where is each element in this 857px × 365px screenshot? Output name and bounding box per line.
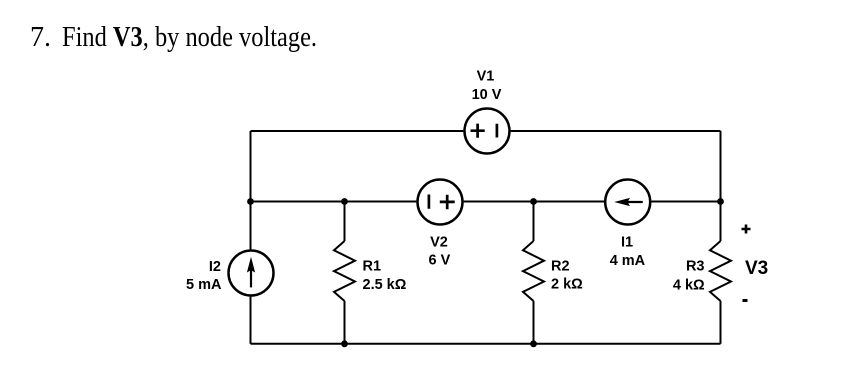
- wire R3 top lead: [720, 202, 722, 242]
- svg-text:2.5 kΩ: 2.5 kΩ: [363, 277, 407, 293]
- wire left rail lower (I2 to bottom rail): [250, 297, 252, 344]
- svg-text:R3: R3: [686, 258, 705, 274]
- wire top-right horizontal (V1 to right rail): [511, 130, 721, 132]
- wire R3 bottom lead: [720, 301, 722, 344]
- svg-text:R1: R1: [363, 259, 382, 275]
- svg-text:10 V: 10 V: [472, 87, 502, 103]
- node dot C (R2 / middle wire): [530, 198, 537, 205]
- wire top-left horizontal (node top to V1): [251, 130, 464, 132]
- svg-text:6 V: 6 V: [429, 253, 451, 269]
- wire bottom rail: [251, 343, 721, 345]
- wire R2 bottom lead: [533, 301, 535, 344]
- voltage source V1: [465, 109, 510, 154]
- wire R1 bottom lead: [344, 301, 346, 344]
- svg-text:4 kΩ: 4 kΩ: [673, 278, 705, 294]
- svg-text:I2: I2: [209, 259, 221, 275]
- wire left rail upper (top corner down to I2): [250, 131, 252, 249]
- wire middle left (node A to V2): [251, 201, 417, 203]
- wire middle center (V2 to I1): [464, 201, 604, 203]
- wire middle right (I1 to node C): [651, 201, 720, 203]
- svg-text:V1: V1: [477, 69, 495, 85]
- svg-text:4 mA: 4 mA: [610, 253, 646, 269]
- svg-text:V3: V3: [745, 258, 768, 279]
- node dot D (right rail / middle wire): [717, 198, 724, 205]
- svg-text:R2: R2: [551, 259, 570, 275]
- resistor R2 zigzag: [523, 241, 544, 301]
- svg-text:2 kΩ: 2 kΩ: [551, 277, 583, 293]
- wire right rail upper (top corner to node C): [720, 131, 722, 202]
- node dot E (R1 / bottom rail): [341, 340, 348, 347]
- current source I1: [605, 180, 650, 225]
- wire R1 top lead: [344, 202, 346, 242]
- wire R2 top lead: [533, 202, 535, 242]
- svg-text:I1: I1: [621, 235, 633, 251]
- current source I2: [229, 251, 274, 296]
- node dot F (R2 / bottom rail): [530, 340, 537, 347]
- svg-text:5 mA: 5 mA: [186, 277, 222, 293]
- node dot A (left rail / middle wire): [247, 198, 254, 205]
- svg-text:V2: V2: [430, 235, 448, 251]
- label V3 minus sign: [743, 299, 748, 302]
- resistor R3 zigzag: [710, 241, 731, 301]
- node dot B (R1 / middle wire): [341, 198, 348, 205]
- resistor R1 zigzag: [334, 241, 355, 301]
- voltage source V2: [418, 180, 463, 225]
- problem title: [0, 0, 1, 1]
- label V3 plus sign: [742, 225, 751, 234]
